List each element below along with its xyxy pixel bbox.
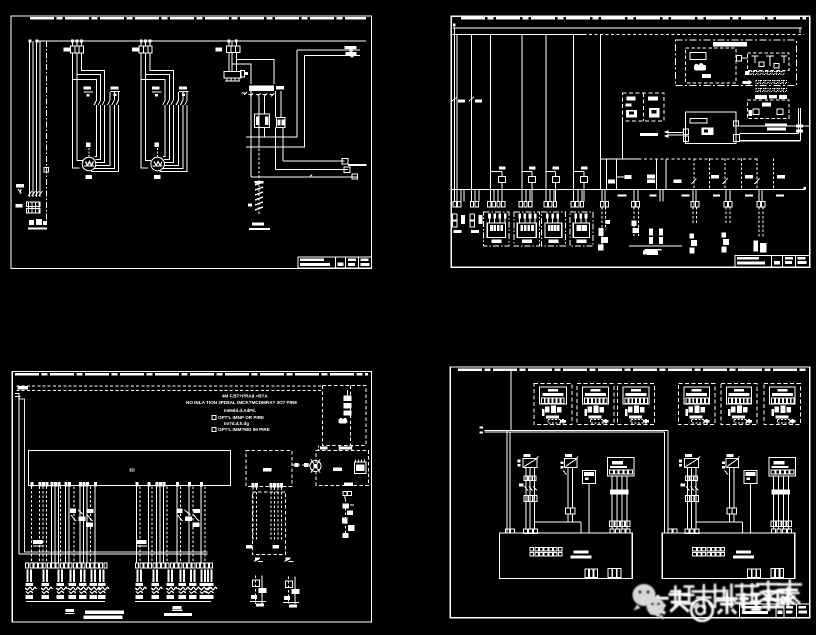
alarm column 7O3 symbols (632, 207, 640, 236)
interconnect to remote risers (246, 50, 297, 137)
bus arrow marker (742, 79, 752, 85)
field device column A (690, 207, 697, 254)
terminal strip OC7 (453, 201, 461, 207)
fuse group 3PB (16, 204, 23, 208)
CT symbol on riser (44, 168, 49, 173)
expansion module dashed box 3M (246, 451, 292, 487)
title block TL (298, 257, 372, 268)
field device column B (722, 207, 730, 253)
neutral dash-dot riser (46, 41, 48, 222)
rung wire 4 (489, 35, 491, 190)
svg-text:Im?d.d.h.dg: Im?d.d.h.dg (224, 421, 249, 426)
wire CC box to rung row (622, 121, 624, 159)
control fuse column 3CZ (470, 214, 483, 233)
svg-text:3D: 3D (129, 468, 136, 473)
field fuse/disconnect row left (26, 570, 106, 587)
compressor package block 2 (662, 529, 795, 579)
interconnect run (534, 521, 581, 523)
control fuses (727, 508, 732, 514)
underline left group (26, 601, 105, 603)
main 3-phase bus L1L2L3 (37, 40, 366, 42)
horn relay pair (645, 229, 663, 255)
terminal strip OCOO (519, 201, 532, 207)
interposing relay cluster B (177, 509, 201, 528)
rung wire 8 (600, 35, 602, 190)
terminal strip 7O3 (632, 201, 640, 207)
aux contact A (33, 540, 43, 544)
field device column C (754, 207, 767, 253)
starter relay module 3 (dash-dot enclosure) (542, 212, 566, 246)
terminal strip COGO (488, 201, 505, 207)
interposing relay cluster A (70, 509, 94, 528)
display chip (354, 460, 366, 474)
sensor assembly B (283, 577, 300, 608)
rung wire 5 (521, 35, 523, 190)
link connector between enclosures (737, 56, 742, 62)
starter relay module 1 (dash-dot enclosure) (484, 212, 509, 246)
PLC comms box (683, 112, 739, 144)
transducer scribble (338, 418, 347, 424)
lead terminals (524, 496, 528, 502)
comms dashed enclosure below 3M (252, 492, 285, 555)
bottom feeder run 2 (276, 169, 348, 171)
starter relay module 4 (dash-dot enclosure) (570, 212, 593, 246)
rail tag blobs (618, 194, 784, 196)
starter relay module 2 (dash-dot enclosure) (514, 212, 540, 246)
terminal strip OC3I (470, 201, 478, 207)
display dashed box AO (316, 451, 368, 486)
sensor option module 4 (dashed enclosure) (678, 384, 714, 425)
control leads (567, 467, 569, 507)
cable note underline (249, 228, 270, 230)
disconnect switch 2a (684, 458, 698, 467)
below display label (344, 482, 353, 486)
terminal strip 4G3 (691, 201, 699, 207)
switch leads (525, 467, 527, 529)
comms lines to field (740, 125, 810, 127)
sensor option module 3 (dashed enclosure) (617, 384, 654, 425)
lead tag band (610, 490, 629, 495)
surge arrester TMB (16, 184, 24, 188)
title block BR (740, 604, 810, 618)
terminal strip 3O33 (544, 201, 557, 207)
watermark front text 头条@冷暖技术 (647, 587, 798, 621)
drawing border TL (11, 16, 372, 269)
starter unit 1 (517, 454, 634, 534)
PLC field wires (left group) (32, 487, 206, 563)
coil K2 (522, 172, 532, 177)
caption left (66, 609, 124, 619)
title block TR (735, 255, 810, 267)
field cable dashed (258, 144, 260, 216)
svg-text:ImMdd.d.AdPd.: ImMdd.d.AdPd. (224, 408, 256, 413)
horn note underline (629, 245, 682, 247)
control switch 2b (726, 458, 739, 467)
aux device box (744, 471, 757, 484)
lead terminals (686, 496, 690, 502)
fuse chain (344, 390, 352, 415)
aux loop rung GO 3N (656, 159, 658, 190)
rail-to-terminal wires (454, 190, 762, 202)
breaker 3M (227, 46, 231, 53)
svg-text:OPT'L IMM?MD IM PIRE: OPT'L IMM?MD IM PIRE (218, 427, 270, 432)
rotary encoder symbol (310, 460, 321, 473)
top reference grid strip (458, 369, 806, 371)
coil K4 (574, 172, 584, 177)
field wiring note dashed pair (17, 385, 323, 387)
DC bus pair (485, 430, 669, 432)
drawing border TR (451, 16, 809, 267)
remote rung JOM (723, 159, 754, 190)
pilot terminals (771, 521, 775, 527)
control feeder risers (250, 91, 252, 177)
PLC I/O terminals (31, 482, 204, 487)
3M field wires dashed (253, 487, 281, 540)
terminal row E2 (756, 81, 787, 84)
PLC main controller block (28, 450, 230, 485)
cable hatch marks (255, 182, 263, 210)
option fuse dashed box (322, 386, 365, 446)
watermark WeChat icon (633, 584, 665, 620)
watermark back text 制冷空调技术 (670, 580, 802, 609)
comms link dashes (292, 464, 310, 466)
compressor no.1 starter branch 1M (64, 40, 121, 179)
supply riser pair (15, 394, 208, 555)
drawing border BR (450, 367, 809, 618)
wire to PL PH riser (236, 60, 274, 85)
bus tap to unit 1 (506, 431, 508, 533)
fuse 2FU (469, 92, 474, 105)
rectifier block A (254, 114, 269, 127)
bus wrap to unit 2 (667, 431, 669, 533)
rectifier block B (276, 117, 285, 127)
control fuse column 3NL (453, 214, 466, 233)
top reference grid strip (30, 17, 366, 19)
probe symbol A (254, 558, 263, 562)
feeder drop from top strip (510, 371, 512, 430)
caption right (164, 606, 192, 616)
terminal strip 6G3 (757, 201, 765, 207)
control transformer branch breaker 3M drops (228, 41, 230, 46)
rung wire 6 (545, 35, 547, 190)
top reference grid strip (461, 17, 806, 19)
wires transformer primary (228, 53, 230, 72)
meter block MB (28, 219, 47, 229)
feeder isolating hooks (28, 191, 43, 196)
control switch 1b (564, 458, 577, 467)
option checkbox 2 (212, 427, 216, 431)
field fuse/disconnect row right (136, 570, 214, 587)
wires box to display (319, 445, 352, 450)
remote rung JO4 (691, 159, 719, 190)
sensor option module 6 (dashed enclosure) (764, 384, 800, 425)
note text block (186, 394, 297, 433)
fuse 1FU on rungs 1-2 (452, 92, 457, 105)
terminal strip 3O3 (571, 201, 584, 207)
bright stub to border (348, 164, 367, 166)
interconnect run (696, 521, 743, 523)
terminal strip OG (601, 201, 609, 207)
overload heaters (524, 476, 528, 481)
pilot leads (773, 476, 775, 529)
control transformer T1 (224, 72, 241, 79)
bottom feeder run 3 (251, 176, 358, 178)
top reference grid strip (15, 373, 368, 375)
3M terminals (252, 483, 283, 487)
rung wire 2 (456, 35, 458, 190)
overload heaters (686, 476, 690, 481)
secondary terminal strip 24M (bright band) (249, 86, 274, 92)
alarm column below OG (598, 207, 610, 251)
svg-text:NO INLA TION 3PD8AL IMCK?MCDMR: NO INLA TION 3PD8AL IMCK?MCDMRA? 3O7 PIR… (186, 400, 297, 405)
control supply line L (453, 27, 802, 29)
sensor assembly A (250, 576, 267, 607)
aux contact B (137, 540, 147, 544)
sensor option module 1 (dashed enclosure) (534, 384, 572, 425)
entry terminals (524, 529, 528, 534)
expansion module (dashed) (747, 53, 789, 71)
upper-right master enclosure (dash-dot) (676, 40, 797, 85)
switch leads (686, 467, 688, 529)
option checkbox 1 (212, 415, 216, 419)
bright note rows (765, 123, 787, 126)
pilot leads (611, 476, 613, 529)
rung wire 7 (573, 35, 575, 190)
coil K3 (546, 172, 556, 177)
svg-text:OPT'L IMNP OR PIRE: OPT'L IMNP OR PIRE (218, 415, 264, 420)
disconnect switch 1a (523, 458, 537, 467)
field terminal strip right (136, 563, 213, 568)
CC/OC option enclosure (623, 93, 665, 121)
bright tag row (755, 95, 767, 99)
terminal row E1 (dashed squares) (745, 71, 784, 75)
aux loop rung A (606, 159, 608, 190)
compressor package block 1 (500, 529, 633, 579)
primary fuse F1 (241, 71, 245, 78)
control supply line N (solid then dashed) (453, 34, 584, 36)
sensor option module 5 (dashed enclosure) (721, 384, 757, 425)
incoming feeder lines left (29, 41, 31, 197)
compressor no.2 starter branch 2M (132, 40, 189, 179)
neutral rail (452, 189, 805, 191)
coil K1 (490, 172, 502, 177)
field terminal strip left (26, 563, 108, 568)
pilot terminals (610, 521, 614, 527)
probe symbol B (285, 558, 294, 562)
wires from rectifiers down (264, 127, 266, 136)
wire from rung8 to remote rungs (601, 158, 639, 160)
control fuses (566, 508, 571, 514)
entry terminals (685, 529, 689, 534)
rung wire 3 (471, 35, 473, 190)
metering terminal rows (27, 202, 41, 213)
starter unit 2 (679, 454, 796, 534)
MM SIPILM label (640, 133, 658, 136)
wire to M WA riser (232, 64, 251, 84)
secondary contact row (244, 92, 274, 97)
bottom feeder run 1 (283, 160, 345, 162)
aux device box (582, 471, 595, 484)
remote rung JO6 (755, 159, 786, 190)
terminal row E3 (756, 89, 787, 92)
lead tag band (771, 490, 790, 495)
wire arrows into comms box (664, 130, 669, 134)
pilot module A?L 2 (769, 457, 796, 476)
rung wire 1 (453, 28, 455, 190)
relay option module (dashed) (747, 100, 789, 119)
underline right group (135, 601, 211, 603)
drawing border BL (12, 372, 371, 623)
sensor option module 2 (dashed enclosure) (577, 384, 614, 425)
pilot module A?L 1 (608, 457, 635, 476)
svg-text:4M F.BT+PRA8 =B?A: 4M F.BT+PRA8 =B?A (222, 394, 268, 399)
control leads (728, 467, 730, 507)
terminal strip 5G3 (724, 201, 732, 207)
remote line PL PH (297, 49, 360, 51)
remote line M WA (305, 55, 361, 57)
feedback device chain (342, 499, 355, 538)
